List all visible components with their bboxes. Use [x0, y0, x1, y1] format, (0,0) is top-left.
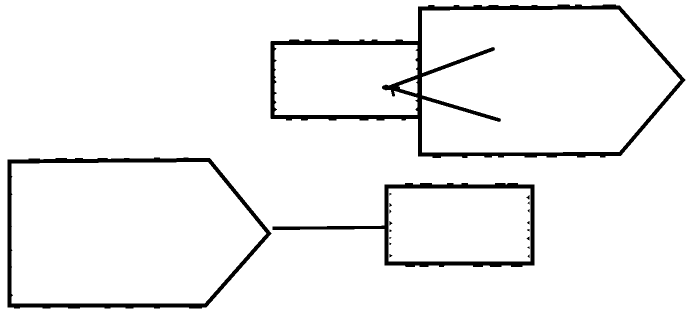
arrow head barb	[392, 89, 394, 95]
pentagon flag shape top-right	[420, 6, 683, 157]
arrow head stub	[384, 85, 398, 90]
rectangle bottom (rough dashed border)	[387, 184, 533, 266]
connector wire	[273, 227, 387, 228]
rectangle top (rough dashed border)	[273, 41, 420, 120]
arrow lower line	[386, 87, 499, 121]
pentagon flag shape bottom-left	[10, 159, 270, 308]
arrow upper line	[386, 49, 493, 89]
